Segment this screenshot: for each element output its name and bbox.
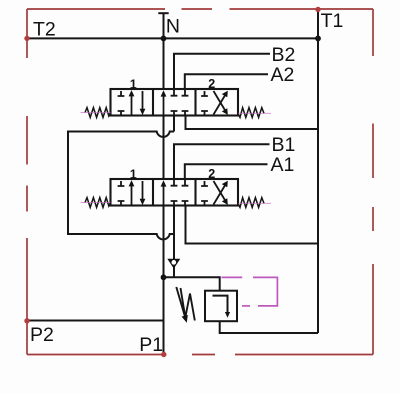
svg-text:2: 2: [208, 77, 215, 91]
wire feed gallery valve2 to check valve: [173, 206, 175, 278]
V1 box2 centre open arrow: [163, 95, 165, 116]
svg-text:B1: B1: [272, 134, 296, 156]
V2 box1 down arrow: [142, 181, 144, 201]
V1 box1 up arrow: [131, 94, 133, 115]
node T2 (red dot): [24, 36, 29, 41]
wire relief outlet to T1 riser: [220, 321, 318, 333]
V1 box1 down arrow: [142, 91, 144, 111]
wire A2 line: [185, 74, 268, 89]
V1 box3 crossed arrows: [214, 95, 226, 115]
wire riser between valves: [163, 116, 165, 180]
wire N riser (open centre line): [163, 13, 165, 89]
wire A1 line: [185, 164, 268, 179]
pilot line (dashed magenta): [222, 277, 278, 306]
V1 box3 blocked port pair: [201, 91, 208, 115]
V1 right spring: [238, 108, 264, 118]
valve V2 (lower spool): [81, 179, 272, 207]
node P2 (red dot): [24, 318, 29, 323]
svg-text:P1: P1: [139, 334, 163, 356]
wire B2 line: [174, 54, 270, 89]
valve V1 (upper spool): [81, 89, 272, 117]
relief valve internal flow arrow: [213, 296, 228, 314]
V2 box3 blocked port pair: [201, 181, 208, 205]
valve V1 body: [111, 89, 239, 116]
wire feed stub valve1 bottom: [173, 116, 175, 132]
svg-text:A1: A1: [271, 154, 295, 176]
relief valve RV1 body: [205, 291, 237, 322]
V2 box2 centre open arrow: [163, 185, 165, 206]
wire P2 line: [27, 320, 164, 322]
svg-text:2: 2: [208, 167, 215, 181]
node T1 (red dot): [315, 7, 320, 12]
junction P1 feed node: [161, 274, 167, 280]
V2 right spring: [238, 198, 264, 208]
svg-text:P2: P2: [30, 324, 54, 346]
relief adjust arrow: [176, 287, 185, 316]
port N plug cap: [158, 12, 168, 14]
V2 box1 blocked port pair: [118, 181, 125, 205]
wire relief inlet: [164, 277, 220, 290]
node P1 (red dot): [161, 352, 166, 357]
V1 box1 blocked port pair: [118, 91, 125, 115]
svg-text:1: 1: [130, 167, 137, 181]
check valve CV1: [167, 259, 180, 269]
svg-text:N: N: [166, 16, 180, 38]
wire riser below valve 2 down to P1: [163, 206, 165, 355]
relief valve spring (adjustable): [181, 288, 195, 321]
valve V2 body: [111, 179, 239, 206]
svg-text:T2: T2: [33, 18, 56, 40]
svg-text:T1: T1: [321, 10, 344, 32]
wire tank line T2-T1: [27, 37, 318, 39]
wire valve2 tank return to T1 riser: [186, 206, 319, 244]
wire valve1 tank return to T1 riser: [186, 116, 319, 130]
V2 box2 blocked ports B,A: [171, 179, 178, 206]
svg-text:A2: A2: [271, 64, 295, 86]
wire T1 riser: [317, 9, 319, 333]
svg-text:B2: B2: [272, 44, 296, 66]
wire parallel feed bypass with hop over riser: [68, 132, 174, 240]
V2 left spring: [85, 198, 111, 208]
dashed enclosure border: [27, 9, 373, 355]
V1 box2 blocked ports B,A: [171, 89, 178, 116]
V1 left spring: [85, 108, 111, 118]
svg-text:1: 1: [130, 77, 137, 91]
wire B1 line: [174, 144, 270, 179]
V2 box3 crossed arrows: [214, 185, 226, 205]
junction N on tank line: [161, 36, 167, 42]
V2 box1 up arrow: [131, 184, 133, 205]
junction T1 riser top: [315, 36, 321, 42]
